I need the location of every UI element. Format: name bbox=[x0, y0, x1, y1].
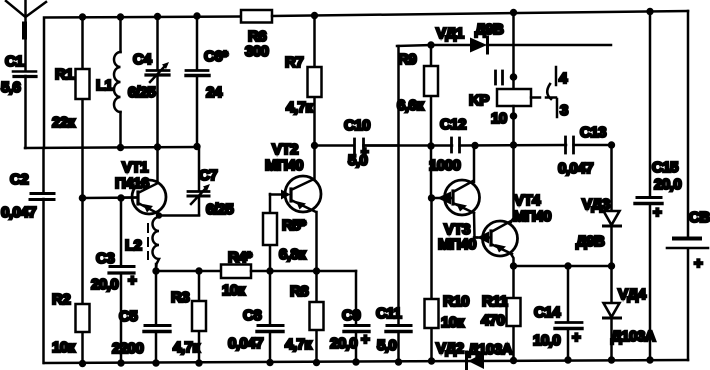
wire VT3 collector bbox=[473, 146, 476, 182]
wire VT1 base line bbox=[83, 196, 138, 199]
svg-text:L1: L1 bbox=[96, 77, 113, 94]
svg-text:П416: П416 bbox=[115, 175, 149, 192]
svg-text:+: + bbox=[653, 204, 662, 221]
svg-text:C5: C5 bbox=[119, 308, 137, 325]
svg-text:6,6к: 6,6к bbox=[397, 97, 424, 114]
wire tank bottom bus bbox=[25, 147, 199, 148]
svg-text:4,7к: 4,7к bbox=[173, 339, 200, 356]
wire VT1 emitter node bbox=[158, 214, 161, 217]
svg-text:R10: R10 bbox=[443, 293, 469, 310]
svg-text:C1: C1 bbox=[5, 53, 23, 70]
capacitor C3 bbox=[91, 198, 137, 363]
svg-text:10к: 10к bbox=[52, 339, 76, 356]
svg-text:C2: C2 bbox=[10, 171, 28, 188]
svg-text:KР: KР bbox=[469, 92, 489, 109]
svg-text:R11: R11 bbox=[482, 293, 507, 310]
wire bottom bus bbox=[44, 360, 688, 363]
svg-text:VД2: VД2 bbox=[436, 340, 464, 357]
resistor R2 bbox=[52, 198, 90, 364]
svg-text:Д9В: Д9В bbox=[576, 233, 605, 250]
svg-text:10: 10 bbox=[491, 110, 507, 127]
capacitor C11 bbox=[376, 46, 411, 362]
transistor VT3 bbox=[431, 180, 480, 253]
capacitor C8 bbox=[228, 271, 283, 363]
wire top bus left bbox=[44, 17, 241, 149]
svg-text:МП40: МП40 bbox=[513, 208, 551, 225]
svg-text:24: 24 bbox=[206, 84, 223, 101]
resistor R5 bbox=[263, 194, 306, 271]
capacitor C6 bbox=[186, 16, 228, 147]
svg-text:C7: C7 bbox=[199, 167, 217, 184]
svg-text:C11: C11 bbox=[376, 305, 401, 322]
svg-text:C3: C3 bbox=[96, 250, 114, 267]
svg-text:+: + bbox=[694, 255, 703, 272]
resistor R11 bbox=[481, 266, 521, 360]
svg-text:470: 470 bbox=[481, 312, 505, 329]
svg-text:300: 300 bbox=[245, 43, 269, 60]
svg-text:C10: C10 bbox=[344, 117, 370, 134]
resistor R7 bbox=[285, 16, 322, 146]
wire VT3 base to R10 bbox=[430, 198, 433, 361]
svg-text:5,6: 5,6 bbox=[1, 79, 21, 96]
svg-text:R7: R7 bbox=[285, 54, 303, 71]
svg-text:3: 3 bbox=[560, 102, 568, 119]
svg-text:R2: R2 bbox=[52, 291, 70, 308]
svg-text:4: 4 bbox=[559, 70, 568, 87]
svg-text:6/25: 6/25 bbox=[128, 84, 155, 101]
svg-text:VД4: VД4 bbox=[618, 286, 647, 303]
diode VD2 bbox=[436, 340, 513, 369]
svg-text:10,0: 10,0 bbox=[533, 332, 560, 349]
svg-text:МП40: МП40 bbox=[265, 157, 303, 174]
capacitor C14 bbox=[533, 266, 582, 360]
svg-text:+: + bbox=[128, 272, 137, 289]
svg-text:СВ: СВ bbox=[689, 209, 710, 226]
wire VT2 collector bbox=[313, 146, 316, 180]
capacitor C13 bbox=[558, 124, 611, 177]
wire right border with battery gap bbox=[687, 11, 690, 238]
svg-text:R3: R3 bbox=[171, 289, 189, 306]
svg-text:C12: C12 bbox=[440, 116, 466, 133]
wire antenna to tank bus bbox=[24, 76, 27, 148]
svg-text:VД1: VД1 bbox=[436, 25, 464, 42]
capacitor C9 bbox=[330, 271, 370, 362]
wire R4 to node bbox=[251, 270, 356, 273]
svg-text:МП40: МП40 bbox=[438, 236, 476, 253]
resistor R10 bbox=[425, 293, 470, 331]
transistor VT1 bbox=[115, 159, 166, 214]
svg-text:20,0: 20,0 bbox=[654, 176, 681, 193]
svg-text:VT1: VT1 bbox=[122, 159, 148, 176]
svg-text:C14: C14 bbox=[534, 304, 561, 321]
svg-text:+: + bbox=[361, 331, 370, 348]
svg-text:6/25: 6/25 bbox=[206, 201, 233, 218]
resistor R3 bbox=[171, 271, 206, 363]
resistor R8 bbox=[285, 212, 324, 363]
wire VT4 emitter node bbox=[511, 254, 514, 266]
wire VT1 collector bbox=[156, 147, 159, 182]
svg-text:VД3: VД3 bbox=[582, 196, 610, 213]
svg-text:4,7к: 4,7к bbox=[285, 336, 312, 353]
svg-text:C4: C4 bbox=[133, 51, 152, 68]
capacitor C15 bbox=[635, 11, 681, 360]
capacitor C1 bbox=[1, 53, 36, 96]
transistor VT2 bbox=[265, 141, 321, 212]
svg-text:R5*: R5* bbox=[282, 217, 306, 234]
svg-text:20,0: 20,0 bbox=[91, 276, 118, 293]
svg-text:L2: L2 bbox=[125, 237, 142, 254]
svg-text:R1: R1 bbox=[55, 66, 73, 83]
resistor R9 bbox=[397, 45, 438, 146]
capacitor C5 bbox=[112, 271, 170, 363]
svg-text:10к: 10к bbox=[222, 282, 246, 299]
relay contact bbox=[546, 67, 568, 119]
inductor L1 bbox=[96, 17, 121, 147]
wire VD1 node line bbox=[397, 45, 431, 46]
svg-text:R8: R8 bbox=[290, 283, 308, 300]
svg-text:C13: C13 bbox=[580, 124, 606, 141]
resistor R6 bbox=[241, 10, 272, 60]
diode VD4 bbox=[604, 266, 656, 360]
svg-text:VT4: VT4 bbox=[514, 192, 541, 209]
wire VT3 emitter to VT4 base bbox=[474, 213, 477, 238]
capacitor C10 bbox=[315, 117, 398, 169]
svg-text:4,7к: 4,7к bbox=[286, 99, 313, 116]
svg-text:R9: R9 bbox=[398, 51, 416, 68]
wire L2 bottom node line bbox=[155, 264, 158, 271]
wire top bus right bbox=[272, 11, 688, 16]
capacitor C7 variable bbox=[188, 147, 233, 218]
svg-text:10к: 10к bbox=[441, 314, 465, 331]
svg-text:0,047: 0,047 bbox=[558, 160, 593, 177]
svg-text:6,8к: 6,8к bbox=[279, 246, 306, 263]
svg-text:1000: 1000 bbox=[429, 157, 461, 174]
wire R9 bottom to VT3 base bbox=[430, 146, 433, 198]
relay coil KR bbox=[469, 12, 540, 145]
inductor L2 bbox=[125, 217, 159, 271]
capacitor C2 bbox=[1, 171, 54, 221]
svg-text:Д103А: Д103А bbox=[468, 341, 513, 358]
svg-text:5,0: 5,0 bbox=[377, 337, 397, 354]
wire VT4 collector bbox=[511, 145, 514, 222]
svg-text:22к: 22к bbox=[52, 114, 76, 131]
svg-text:C6*: C6* bbox=[204, 48, 228, 65]
battery GB bbox=[667, 209, 710, 272]
transistor VT4 bbox=[474, 192, 551, 256]
diode VD3 bbox=[576, 145, 621, 266]
capacitor C4 variable bbox=[128, 17, 169, 147]
diode VD1 bbox=[431, 21, 611, 53]
resistor R4 bbox=[221, 249, 252, 299]
svg-text:+: + bbox=[572, 329, 581, 346]
resistor R1 bbox=[52, 17, 90, 198]
svg-text:C9: C9 bbox=[342, 307, 360, 324]
svg-text:2200: 2200 bbox=[112, 340, 144, 357]
svg-text:C8: C8 bbox=[243, 307, 261, 324]
svg-text:R4*: R4* bbox=[228, 249, 252, 266]
svg-text:VT2: VT2 bbox=[272, 141, 298, 158]
wire C2 column bbox=[42, 148, 45, 363]
svg-text:0,047: 0,047 bbox=[1, 204, 36, 221]
capacitor C12 bbox=[364, 116, 567, 174]
svg-text:Д9В: Д9В bbox=[475, 21, 504, 38]
antenna bbox=[6, 0, 46, 71]
svg-text:20,0: 20,0 bbox=[330, 335, 357, 352]
svg-text:C15: C15 bbox=[652, 159, 678, 176]
svg-text:0,047: 0,047 bbox=[228, 335, 263, 352]
